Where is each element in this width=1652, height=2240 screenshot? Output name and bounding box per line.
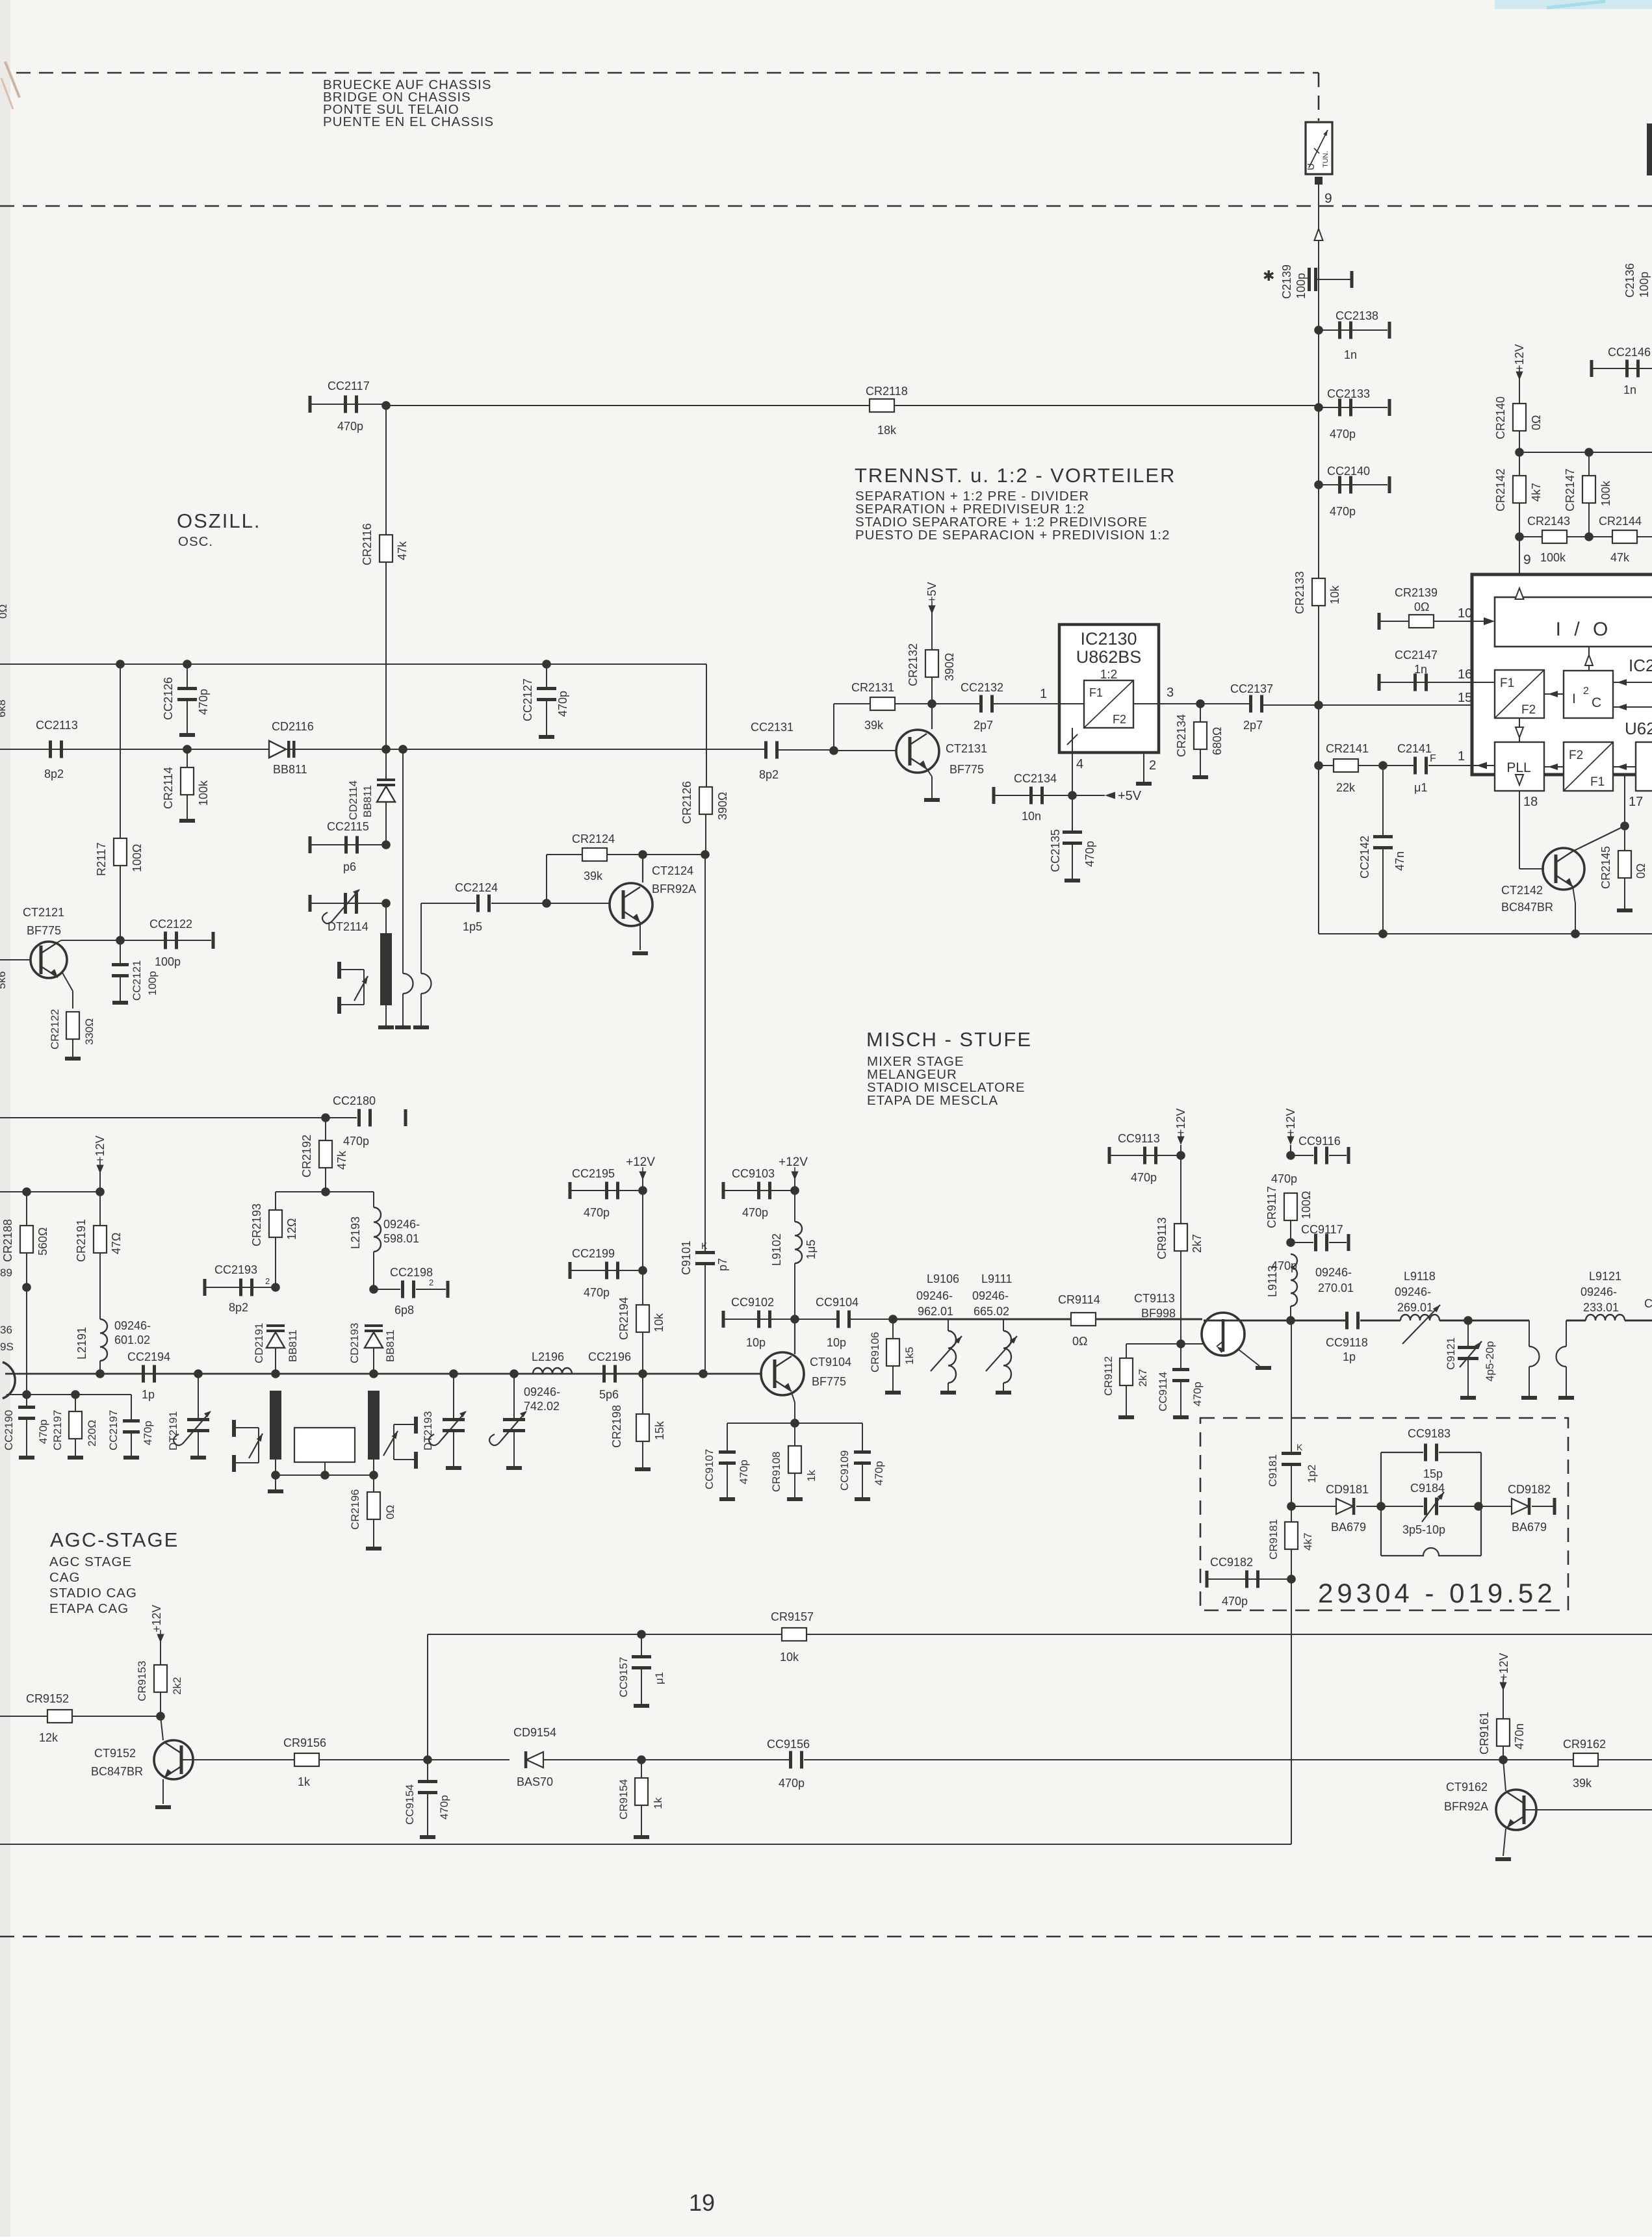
svg-text:100p: 100p <box>1638 272 1651 298</box>
resistor CR2133 10k <box>1312 578 1325 606</box>
resistor CR2144 47k <box>1612 530 1637 543</box>
capacitor CC9107 470p <box>727 1423 728 1452</box>
resistor CR9114 0ohm <box>1071 1313 1096 1326</box>
connector partial at page right edge <box>1647 123 1652 175</box>
svg-text:2k7: 2k7 <box>1191 1234 1204 1253</box>
svg-text:L2196: L2196 <box>532 1350 564 1363</box>
resistor CR2188 560ohm <box>26 1192 27 1226</box>
svg-text:L2193: L2193 <box>349 1217 362 1249</box>
chassis boundary dashed line 2 <box>0 205 1652 207</box>
svg-text:C2136: C2136 <box>1623 263 1636 298</box>
resistor CR2134 680ohm <box>1200 704 1201 723</box>
capacitor CC2142 47n <box>1382 766 1384 838</box>
svg-text:09246-: 09246- <box>916 1289 953 1302</box>
supply +5V arrow <box>1072 795 1105 796</box>
svg-text:AGC-STAGE: AGC-STAGE <box>50 1528 179 1551</box>
svg-text:CT9113: CT9113 <box>1134 1292 1175 1305</box>
svg-text:470p: 470p <box>1222 1595 1248 1608</box>
arrow right block to F2F1 <box>1613 766 1636 767</box>
arrow up on pin9 wire <box>1315 229 1323 240</box>
svg-text:BFR92A: BFR92A <box>652 882 696 895</box>
transistor CT9104 BF775 mixer <box>761 1352 804 1395</box>
svg-text:+12V: +12V <box>150 1604 163 1632</box>
capacitor CC2197 470p <box>131 1395 132 1419</box>
svg-text:39k: 39k <box>1573 1777 1592 1790</box>
svg-text:270.01: 270.01 <box>1318 1281 1354 1294</box>
node C9121 <box>1464 1316 1473 1325</box>
svg-text:1k: 1k <box>298 1775 311 1788</box>
capacitor CC9117 470p <box>1286 1238 1295 1247</box>
svg-text:CC2194: CC2194 <box>127 1350 170 1363</box>
svg-text:601.02: 601.02 <box>114 1333 150 1346</box>
svg-text:F2: F2 <box>1569 749 1583 762</box>
svg-text:CC2121: CC2121 <box>131 960 143 1001</box>
capacitor CC2198 6p8 <box>369 1285 378 1294</box>
capacitor CC2194 1p <box>142 1365 145 1383</box>
svg-text:OSZILL.: OSZILL. <box>177 509 261 532</box>
svg-text:I / O: I / O <box>1556 619 1612 640</box>
svg-text:DT2193: DT2193 <box>422 1411 434 1450</box>
varicap diode CD2191 BB811 <box>266 1324 285 1327</box>
capacitor CC2132 2p7 <box>979 695 983 713</box>
svg-text:0Ω: 0Ω <box>384 1505 396 1519</box>
resistor CR2126 390ohm <box>706 664 707 788</box>
svg-text:470p: 470p <box>438 1795 450 1820</box>
svg-text:CC2138: CC2138 <box>1336 309 1378 322</box>
svg-text:10n: 10n <box>1022 810 1041 823</box>
svg-text:CT2142: CT2142 <box>1501 884 1543 897</box>
adjustable core bracket mixer left <box>232 1420 236 1437</box>
svg-text:CT9162: CT9162 <box>1446 1781 1488 1794</box>
svg-text:BF775: BF775 <box>27 924 61 937</box>
svg-text:F: F <box>1430 753 1436 764</box>
svg-text:CC9107: CC9107 <box>703 1449 716 1489</box>
capacitor C2139 100p to chassis <box>1308 268 1311 291</box>
svg-text:4p5-20p: 4p5-20p <box>1484 1341 1496 1382</box>
svg-text:CC2199: CC2199 <box>572 1247 615 1260</box>
svg-text:100Ω: 100Ω <box>131 844 144 873</box>
capacitor CC2199 470p <box>569 1262 572 1279</box>
F1/F2 converter block <box>1495 670 1544 718</box>
svg-text:CD2116: CD2116 <box>272 720 314 733</box>
svg-text:CR2116: CR2116 <box>361 523 374 565</box>
wire heavy mixer IF line <box>893 1319 1071 1320</box>
svg-text:CC2180: CC2180 <box>333 1094 376 1107</box>
resistor CR2197 220ohm <box>75 1395 76 1411</box>
resistor CR2122 330ohm <box>62 973 73 991</box>
svg-text:2: 2 <box>265 1276 270 1286</box>
capacitor CC9116 470p <box>1286 1151 1295 1160</box>
svg-text:IC21: IC21 <box>1629 656 1652 675</box>
capacitor CC2190 470p <box>26 1395 27 1409</box>
svg-text:DT2114: DT2114 <box>328 920 368 933</box>
svg-text:10: 10 <box>1458 606 1472 621</box>
svg-text:8p2: 8p2 <box>759 768 779 781</box>
svg-text:1k: 1k <box>652 1797 664 1809</box>
svg-text:C9184: C9184 <box>1410 1482 1445 1495</box>
svg-text:CC9118: CC9118 <box>1326 1336 1368 1349</box>
capacitor CC2140 470p <box>1318 330 1319 578</box>
svg-text:CC9183: CC9183 <box>1408 1427 1451 1440</box>
capacitor CC9113 470p <box>1176 1151 1185 1160</box>
transformer core box <box>294 1428 355 1462</box>
svg-text:CC2117: CC2117 <box>328 380 370 393</box>
trimmer capacitor C9121 4p5-20p <box>1467 1320 1469 1349</box>
resistor CR9161 470n <box>1497 1719 1510 1746</box>
resistor CR2118 18k <box>386 405 870 406</box>
wire CT9113 source to ground <box>1238 1349 1259 1366</box>
I2C block <box>1564 671 1613 718</box>
svg-text:CC2135: CC2135 <box>1049 829 1062 872</box>
svg-text:47k: 47k <box>396 541 409 560</box>
coupling loop 1 <box>1529 1320 1530 1346</box>
svg-text:L2191: L2191 <box>75 1327 88 1359</box>
oscillator coil winding (primary) <box>385 903 387 933</box>
svg-text:CR9161: CR9161 <box>1478 1712 1491 1755</box>
svg-text:470p: 470p <box>584 1286 610 1299</box>
wire AGC elbow down <box>427 1634 428 1760</box>
svg-text:22k: 22k <box>1336 781 1356 794</box>
wire CT2124 emitter to ground <box>639 922 641 950</box>
svg-text:+12V: +12V <box>94 1135 107 1163</box>
svg-text:4: 4 <box>1076 757 1083 771</box>
svg-text:3p5-10p: 3p5-10p <box>1402 1523 1445 1536</box>
IC2130 divider block F1/F2 <box>1084 680 1133 728</box>
svg-text:I: I <box>1572 691 1576 706</box>
capacitor CC2113 8p2 <box>49 741 52 758</box>
svg-text:2p7: 2p7 <box>1243 719 1263 732</box>
svg-text:CR2141: CR2141 <box>1326 742 1369 755</box>
svg-text:3: 3 <box>1167 686 1174 700</box>
svg-text:470p: 470p <box>1271 1172 1297 1185</box>
svg-text:CC2124: CC2124 <box>455 881 498 894</box>
svg-text:10k: 10k <box>1328 585 1341 604</box>
svg-text:CC9182: CC9182 <box>1210 1556 1253 1569</box>
wire oscillator varicap line <box>0 749 768 750</box>
svg-text:L9118: L9118 <box>1404 1270 1436 1283</box>
wire AGC feedback line <box>428 1634 1652 1635</box>
svg-text:CC2127: CC2127 <box>521 678 534 721</box>
wire oscillator output column to C9101 <box>704 855 706 1251</box>
wire CT9104 collector <box>794 1319 795 1354</box>
svg-text:CR9153: CR9153 <box>136 1661 148 1701</box>
svg-text:233.01: 233.01 <box>1583 1301 1619 1314</box>
varicap diode CD2116 BB811 <box>269 741 286 758</box>
node CC9104/CR9106 <box>888 1315 897 1324</box>
capacitor CC2122 100p <box>164 932 167 949</box>
pin 2 wire to ground <box>1143 753 1144 782</box>
svg-text:+12V: +12V <box>626 1155 655 1169</box>
svg-text:470p: 470p <box>873 1461 885 1486</box>
node CC9154 <box>423 1755 432 1764</box>
chassis boundary dashed line top <box>16 72 1319 74</box>
transistor CT9113 BF998 dual-gate MOSFET <box>1202 1313 1245 1356</box>
svg-text:CR2114: CR2114 <box>162 767 175 809</box>
svg-text:100p: 100p <box>146 971 159 996</box>
svg-text:CR9114: CR9114 <box>1058 1293 1100 1306</box>
svg-text:C2139: C2139 <box>1280 264 1293 299</box>
svg-text:0Ω: 0Ω <box>1530 415 1543 430</box>
svg-text:09246-: 09246- <box>383 1218 420 1231</box>
svg-text:CR9108: CR9108 <box>770 1452 782 1492</box>
svg-text:39k: 39k <box>864 719 884 732</box>
svg-text:L9113: L9113 <box>1266 1265 1279 1297</box>
capacitor CC9102 10p <box>722 1311 725 1328</box>
svg-text:09246-: 09246- <box>114 1319 151 1332</box>
node CR2194/CR2198 <box>638 1369 647 1378</box>
resistor CR2124 39k <box>547 854 582 855</box>
node CC2117/CR2116 <box>381 401 391 410</box>
capacitor CC9154 470p <box>427 1760 428 1781</box>
resistor R2117 100ohm <box>116 660 125 669</box>
node winding1 bottom <box>271 1471 280 1480</box>
PLL block <box>1495 742 1544 791</box>
resistor CR2140 0ohm <box>1513 404 1526 431</box>
svg-text:17: 17 <box>1629 795 1643 809</box>
node L2191/bus <box>96 1369 105 1378</box>
wire lower divider node <box>1515 532 1524 541</box>
wire oscillator varicap node <box>321 1187 330 1196</box>
svg-text:470p: 470p <box>1330 505 1356 518</box>
svg-text:CR9152: CR9152 <box>26 1692 69 1705</box>
svg-text:BFR92A: BFR92A <box>1444 1800 1488 1813</box>
wire +12V rail left <box>0 1191 100 1192</box>
wire CT9162 collector <box>1503 1760 1506 1791</box>
resistor CR2147 100k <box>1588 452 1590 537</box>
wire bottom rail of PLL section <box>1319 933 1652 934</box>
node CR2134 <box>1196 699 1205 708</box>
wire CT9152 emitter to ground <box>162 1779 164 1804</box>
svg-text:2: 2 <box>1583 686 1589 697</box>
svg-text:K: K <box>701 1241 708 1251</box>
wire CT2124 collector <box>642 855 643 882</box>
svg-text:12k: 12k <box>39 1731 58 1744</box>
svg-text:CT2131: CT2131 <box>946 742 987 755</box>
svg-text:390Ω: 390Ω <box>716 792 729 821</box>
svg-text:ETAPA CAG: ETAPA CAG <box>49 1601 129 1616</box>
capacitor CC9109 470p <box>862 1423 863 1452</box>
capacitor CC2131 8p2 <box>764 741 768 759</box>
svg-text:+12V: +12V <box>1174 1108 1187 1136</box>
F2/F1 block <box>1564 742 1613 791</box>
svg-text:665.02: 665.02 <box>974 1305 1009 1318</box>
svg-text:19: 19 <box>689 2189 715 2216</box>
svg-text:BF775: BF775 <box>812 1375 846 1388</box>
svg-text:μ1: μ1 <box>653 1672 665 1684</box>
node CR2140 bottom <box>1519 431 1520 537</box>
node CR9154 <box>637 1755 646 1764</box>
sub box with CC9183 <box>1380 1452 1382 1556</box>
svg-text:CR9106: CR9106 <box>869 1332 881 1372</box>
svg-text:CR2145: CR2145 <box>1599 846 1612 889</box>
wire CT9162 emitter to ground <box>1503 1829 1506 1856</box>
svg-text:CC2198: CC2198 <box>390 1266 433 1279</box>
transistor CT2121 BF775 <box>31 942 67 978</box>
svg-text:TUN.: TUN. <box>1322 151 1330 168</box>
svg-text:TRENNST. u. 1:2 - VORTEILER: TRENNST. u. 1:2 - VORTEILER <box>855 464 1176 487</box>
coil L9111 09246-665.02 tunable <box>1003 1331 1011 1383</box>
svg-text:470p: 470p <box>556 691 569 717</box>
svg-text:470p: 470p <box>343 1135 369 1148</box>
svg-text:269.01: 269.01 <box>1397 1301 1433 1314</box>
pin 18 wire <box>1519 791 1520 869</box>
trimmer capacitor mixer output <box>510 1369 519 1378</box>
svg-text:CR2147: CR2147 <box>1564 469 1577 511</box>
svg-text:598.01: 598.01 <box>383 1232 419 1245</box>
wire AGC bottom return rail <box>0 1844 1291 1845</box>
svg-text:AGC STAGE: AGC STAGE <box>49 1554 132 1569</box>
svg-text:F2: F2 <box>1113 713 1126 726</box>
svg-text:470p: 470p <box>1131 1171 1157 1184</box>
svg-text:CT2121: CT2121 <box>23 906 64 919</box>
svg-text:BAS70: BAS70 <box>517 1775 553 1788</box>
resistor CR2116 47k <box>385 406 387 535</box>
node CR2124/CR2126 <box>701 850 710 859</box>
svg-text:CR2133: CR2133 <box>1293 571 1306 614</box>
resistor CR9181 4k7 <box>1291 1506 1292 1522</box>
capacitor CC9103 470p <box>722 1182 725 1199</box>
svg-text:+12V: +12V <box>1284 1108 1297 1136</box>
pin 17 wire <box>1624 775 1625 826</box>
svg-text:4k7: 4k7 <box>1530 483 1543 502</box>
svg-text:470p: 470p <box>37 1419 49 1444</box>
arrow F1F2 to PLL <box>1519 718 1520 742</box>
svg-text:CT2124: CT2124 <box>652 864 693 877</box>
svg-text:CR2124: CR2124 <box>572 832 615 845</box>
svg-text:390Ω: 390Ω <box>943 653 956 682</box>
svg-text:4k7: 4k7 <box>1302 1533 1314 1551</box>
svg-text:F1: F1 <box>1500 676 1514 690</box>
svg-text:BB811: BB811 <box>287 1330 299 1362</box>
node CR9161/CC9156 line <box>1499 1755 1508 1764</box>
svg-text:CR2142: CR2142 <box>1494 469 1507 511</box>
svg-text:L9102: L9102 <box>770 1233 783 1266</box>
svg-text:CC2190: CC2190 <box>3 1410 15 1450</box>
svg-text:C: C <box>1644 1297 1652 1310</box>
diode CD9154 BAS70 <box>428 1759 510 1760</box>
svg-text:47n: 47n <box>1393 851 1406 871</box>
svg-text:1p2: 1p2 <box>1306 1465 1318 1483</box>
varicap diode CD2114 BB811 <box>381 745 391 754</box>
svg-text:CC2146: CC2146 <box>1608 346 1651 359</box>
svg-text:2: 2 <box>429 1278 433 1287</box>
svg-text:742.02: 742.02 <box>524 1400 560 1413</box>
trimmer capacitor DT2193 <box>449 1369 458 1378</box>
resistor CR2194 10k <box>642 1191 643 1305</box>
svg-text:0Ω: 0Ω <box>0 604 9 619</box>
svg-text:220Ω: 220Ω <box>86 1420 98 1447</box>
resistor CR2192 47k <box>325 1118 326 1140</box>
svg-text:CR2139: CR2139 <box>1395 586 1438 599</box>
svg-text:IC2130: IC2130 <box>1080 629 1137 649</box>
svg-text:CD2193: CD2193 <box>348 1323 361 1363</box>
capacitor CC2134 10n <box>992 787 996 804</box>
pin 10 wire CR2139 <box>1378 613 1381 630</box>
resistor CR2131 39k <box>834 703 870 704</box>
capacitor CC9182 470p <box>1287 1575 1296 1584</box>
svg-text:CC2137: CC2137 <box>1230 682 1273 695</box>
svg-text:C9121: C9121 <box>1445 1337 1457 1370</box>
svg-text:39k: 39k <box>584 869 603 882</box>
capacitor CC9114 470p <box>1180 1344 1181 1369</box>
svg-text:L9121: L9121 <box>1589 1270 1621 1283</box>
arrow I2C to F1/F2 <box>1544 693 1564 695</box>
svg-text:2k2: 2k2 <box>171 1677 183 1695</box>
svg-text:CC2133: CC2133 <box>1327 387 1370 400</box>
wire mixer input bus <box>5 1373 703 1375</box>
svg-text:100p: 100p <box>1295 273 1308 299</box>
resistor CR2198 15k <box>642 1374 643 1414</box>
svg-text:CD2114: CD2114 <box>347 780 359 820</box>
svg-text:09246-: 09246- <box>524 1385 560 1398</box>
svg-text:+5V: +5V <box>1118 789 1142 803</box>
resistor CR2145 0ohm <box>1624 826 1625 851</box>
svg-text:CR9157: CR9157 <box>771 1610 814 1623</box>
svg-text:9S: 9S <box>0 1341 14 1353</box>
node pin4/CC2134/+5V <box>1068 791 1077 800</box>
coil L2196 09246-742.02 <box>533 1368 572 1374</box>
svg-text:PLL: PLL <box>1506 760 1530 775</box>
resistor CR9113 2k7 <box>1174 1224 1187 1251</box>
svg-text:2k7: 2k7 <box>1137 1369 1149 1387</box>
svg-text:U862BS: U862BS <box>1076 647 1142 667</box>
svg-text:100p: 100p <box>155 955 181 968</box>
svg-text:470p: 470p <box>337 420 363 433</box>
coil L2193 09246-598.01 <box>373 1192 374 1207</box>
wire pin9 down from connector <box>1318 185 1319 330</box>
connector U-TUN tuning voltage <box>1306 122 1332 174</box>
capacitor CC2124 1p5 <box>421 903 476 904</box>
svg-text:CC2134: CC2134 <box>1014 772 1057 785</box>
diode CD9181 BA679 <box>1291 1506 1336 1507</box>
node CR2188 column <box>22 1283 31 1292</box>
svg-text:μ1: μ1 <box>1414 781 1427 794</box>
svg-text:6k8: 6k8 <box>0 700 8 717</box>
svg-text:CC9117: CC9117 <box>1301 1223 1343 1236</box>
trimmer capacitor C9184 3p5-10p <box>1381 1506 1423 1507</box>
svg-text:09246-: 09246- <box>972 1289 1009 1302</box>
resistor CR2142 4k7 <box>1513 476 1526 503</box>
oscillator input block partial <box>1636 742 1652 791</box>
arrow I2C to I/O <box>1588 647 1590 671</box>
svg-text:CC2115: CC2115 <box>327 820 369 833</box>
svg-text:470p: 470p <box>142 1421 154 1445</box>
svg-text:C9181: C9181 <box>1267 1454 1279 1487</box>
svg-text:CC2126: CC2126 <box>162 677 175 720</box>
capacitor CC2115 p6 <box>309 836 312 853</box>
svg-text:BA679: BA679 <box>1331 1521 1366 1534</box>
svg-text:1: 1 <box>1458 749 1465 764</box>
svg-text:CR2191: CR2191 <box>75 1219 88 1262</box>
I2C input arrows from right <box>1613 682 1652 683</box>
adjustable core bracket mixer right <box>414 1417 418 1434</box>
resistor CR9152 12k <box>0 1716 47 1717</box>
svg-text:CC9109: CC9109 <box>838 1450 851 1491</box>
svg-text:p6: p6 <box>343 860 356 873</box>
svg-text:15p: 15p <box>1423 1467 1443 1480</box>
svg-text:CR2122: CR2122 <box>49 1009 61 1049</box>
svg-text:36: 36 <box>0 1324 12 1336</box>
capacitor CC2133 470p <box>1314 403 1323 412</box>
svg-text:0Ω: 0Ω <box>1414 600 1429 613</box>
svg-text:BC847BR: BC847BR <box>91 1765 143 1778</box>
svg-text:CR9112: CR9112 <box>1102 1356 1115 1396</box>
svg-text:CC2147: CC2147 <box>1395 649 1438 662</box>
svg-text:8p2: 8p2 <box>44 767 64 780</box>
svg-text:1k5: 1k5 <box>903 1347 916 1365</box>
svg-text:+5V: +5V <box>925 582 938 603</box>
mixer transformer winding 2 <box>368 1391 380 1460</box>
